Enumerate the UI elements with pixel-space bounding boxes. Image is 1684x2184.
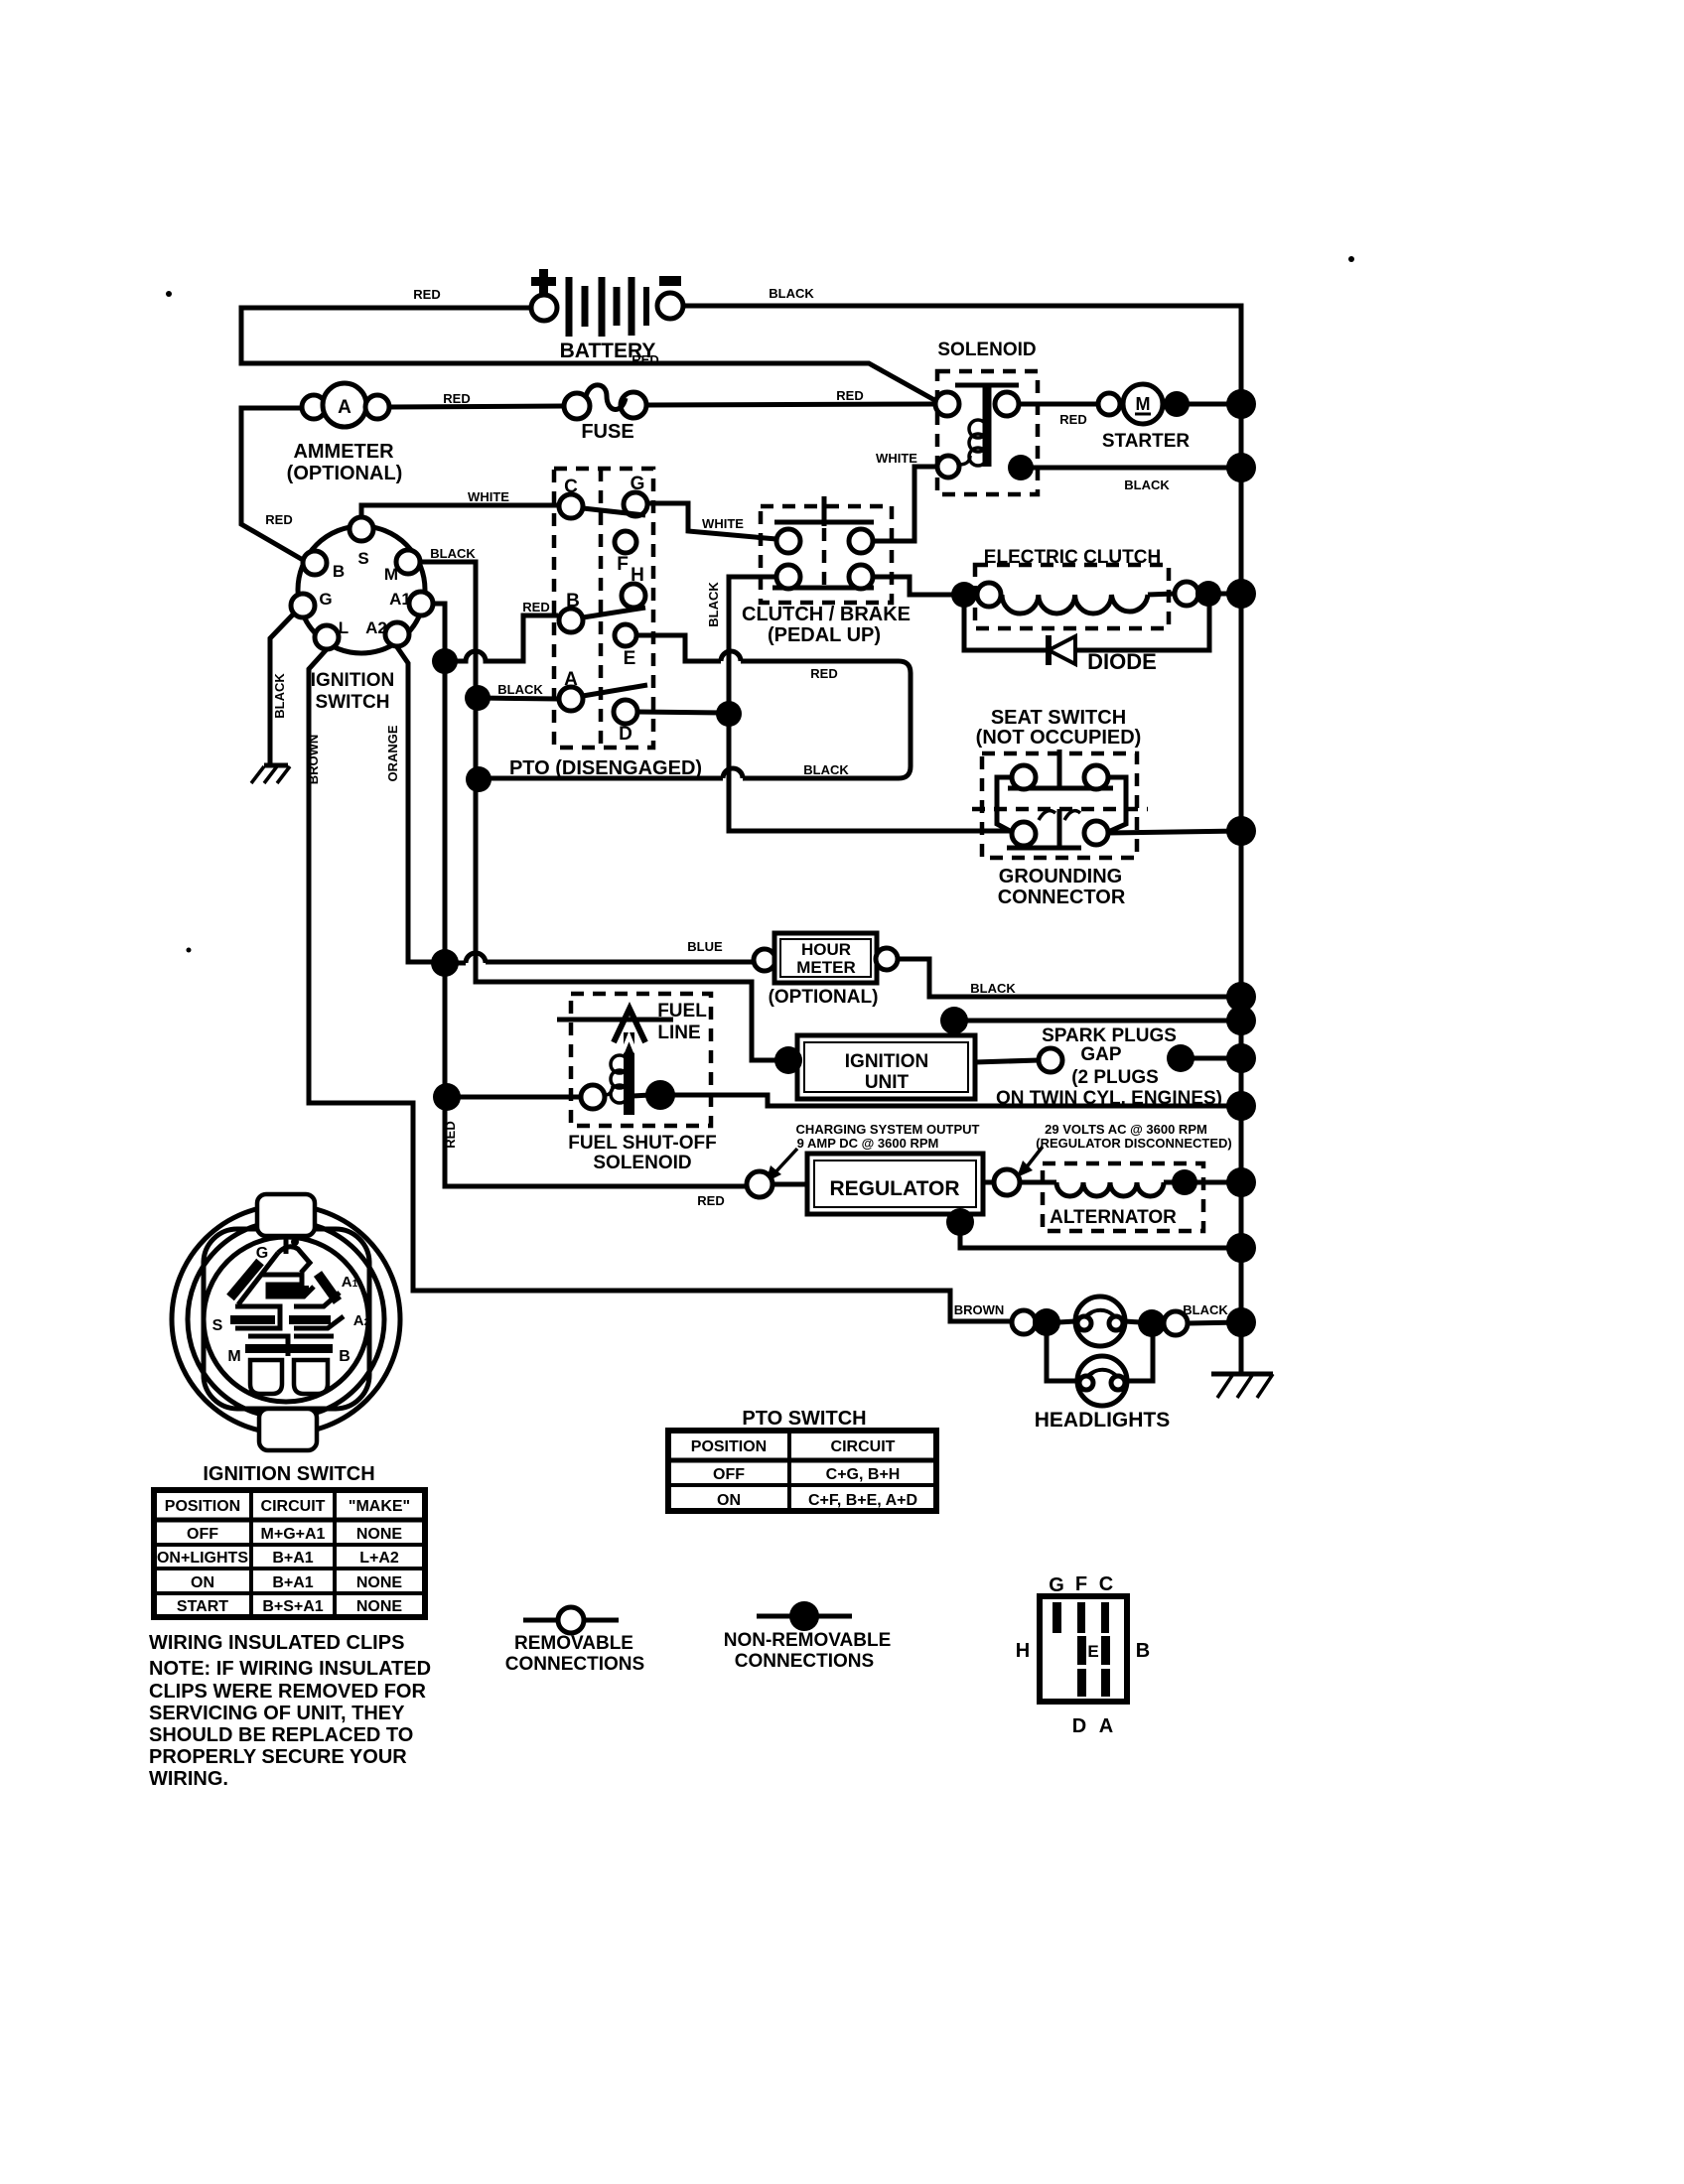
ground at ignition switch — [251, 765, 290, 783]
junction dot bus regulator return — [1226, 1233, 1256, 1263]
svg-text:ON+LIGHTS: ON+LIGHTS — [157, 1550, 248, 1567]
ignition switch pin S — [350, 517, 373, 568]
svg-text:D: D — [619, 724, 632, 745]
removable connections legend — [505, 1607, 644, 1675]
wire seat switch to bus — [1108, 831, 1241, 833]
PTO pin F — [615, 531, 636, 575]
svg-text:B+A1: B+A1 — [272, 1550, 313, 1567]
junction dot fuel solenoid right — [645, 1080, 675, 1110]
spark plug gap electrode (dot) and wire to bus — [1192, 1056, 1241, 1061]
clutch/brake pin top-right — [849, 529, 873, 553]
PTO pin G — [624, 474, 647, 516]
svg-text:RED: RED — [443, 1121, 458, 1148]
svg-text:BLUE: BLUE — [687, 939, 723, 954]
svg-text:LINE: LINE — [657, 1023, 700, 1043]
svg-text:NON-REMOVABLE: NON-REMOVABLE — [724, 1630, 892, 1651]
svg-text:L: L — [339, 618, 349, 637]
svg-text:AMMETER: AMMETER — [293, 441, 394, 463]
junction dot orange/A1/blue — [431, 949, 459, 977]
svg-text:BLACK: BLACK — [272, 673, 287, 719]
wire headlights to bus (BLACK) — [1188, 1322, 1241, 1323]
PTO pin B — [559, 591, 583, 632]
ground at bus bottom — [1211, 1374, 1273, 1398]
svg-text:B: B — [566, 591, 580, 612]
svg-text:STARTER: STARTER — [1102, 431, 1191, 452]
junction dot bus spark gap — [1226, 1043, 1256, 1073]
wire solenoid to starter (RED) — [1019, 402, 1098, 407]
svg-text:METER: METER — [796, 958, 856, 977]
wire diode branch — [964, 594, 1209, 650]
non-removable connections legend — [724, 1601, 892, 1672]
svg-text:SOLENOID: SOLENOID — [593, 1153, 691, 1173]
svg-text:(OPTIONAL): (OPTIONAL) — [287, 463, 403, 484]
svg-text:FUSE: FUSE — [581, 421, 633, 443]
diode D1 — [1049, 635, 1157, 674]
spark plugs label — [996, 1025, 1222, 1109]
headlight feed open circle — [1012, 1310, 1036, 1334]
svg-text:RED: RED — [810, 666, 837, 681]
svg-text:BLACK: BLACK — [497, 682, 543, 697]
wire pin S up and right to PTO C (WHITE) — [361, 505, 559, 520]
svg-text:FUEL SHUT-OFF: FUEL SHUT-OFF — [568, 1133, 717, 1154]
svg-text:NOTE: IF WIRING INSULATED: NOTE: IF WIRING INSULATED — [149, 1658, 431, 1680]
alternator — [1043, 1163, 1203, 1231]
print artifact dots — [166, 291, 172, 297]
svg-text:G: G — [256, 1245, 268, 1262]
wire blue to hour meter with hop — [445, 953, 754, 963]
wire fuse to solenoid (RED) — [646, 404, 935, 405]
headlight right open circle — [1164, 1311, 1188, 1335]
svg-text:REMOVABLE: REMOVABLE — [514, 1633, 633, 1654]
wire PTO D to junction — [637, 712, 723, 713]
clutch/brake switch dashed box — [742, 496, 911, 646]
svg-text:A1: A1 — [389, 590, 411, 609]
svg-text:B: B — [339, 1348, 351, 1365]
seat switch title — [976, 707, 1142, 749]
junction dot fuel feed — [433, 1083, 461, 1111]
svg-text:M: M — [384, 565, 398, 584]
parallel branch to headlight 2 — [1047, 1322, 1153, 1381]
connector keyway maze — [212, 1238, 370, 1394]
electric clutch — [975, 547, 1198, 628]
seat switch / grounding connector dashed box — [972, 753, 1148, 858]
wire PTO E loop to black vertical (RED/BLACK return) — [483, 635, 911, 778]
svg-text:M: M — [1136, 394, 1151, 414]
junction dot regulator bottom — [946, 1208, 974, 1236]
junction dot A1/red-B — [432, 648, 458, 674]
fuel shut-off solenoid — [557, 994, 717, 1173]
svg-text:NONE: NONE — [356, 1526, 403, 1543]
wire ammeter left down to ignition switch B (RED) — [241, 408, 303, 560]
clutch/brake pin bottom-right — [849, 565, 873, 589]
svg-text:OFF: OFF — [187, 1526, 218, 1543]
wire headlight 1 right — [1125, 1321, 1140, 1322]
ignition switch table — [154, 1490, 425, 1617]
svg-text:HOUR: HOUR — [801, 940, 851, 959]
svg-text:NONE: NONE — [356, 1574, 403, 1591]
svg-text:GAP: GAP — [1080, 1044, 1122, 1065]
seat switch pin bottom-left — [1012, 822, 1036, 846]
svg-text:CONNECTIONS: CONNECTIONS — [735, 1651, 874, 1672]
svg-text:OFF: OFF — [713, 1466, 745, 1483]
wire pin A2 down (ORANGE) — [397, 647, 434, 962]
ignition switch pin A1 — [389, 590, 433, 615]
wire battery positive to left loop down to solenoid (RED) — [241, 308, 936, 401]
svg-text:HEADLIGHTS: HEADLIGHTS — [1035, 1409, 1171, 1432]
right bus vertical wire — [1239, 304, 1244, 1374]
svg-text:RED: RED — [836, 388, 863, 403]
svg-text:(OPTIONAL): (OPTIONAL) — [769, 987, 879, 1008]
svg-text:E: E — [1087, 1642, 1098, 1661]
svg-text:A2: A2 — [365, 618, 387, 637]
wire pin A1 right and down (RED feed) — [433, 604, 748, 1186]
headlight lamp 1 — [1075, 1297, 1125, 1346]
junction dot bus electric clutch — [1226, 579, 1256, 609]
svg-text:B: B — [333, 562, 345, 581]
wire PTO G to clutch-brake top-left (WHITE) — [647, 503, 776, 539]
svg-text:WIRING.: WIRING. — [149, 1768, 228, 1790]
PTO contact blade C-G — [583, 508, 645, 515]
svg-text:PTO SWITCH: PTO SWITCH — [742, 1408, 866, 1430]
junction dot bus solenoid black — [1226, 453, 1256, 482]
junction dot bus spark top — [1226, 1006, 1256, 1035]
seat switch pin top-right — [1084, 765, 1108, 789]
PTO pin E — [615, 624, 636, 669]
svg-text:SPARK PLUGS: SPARK PLUGS — [1042, 1025, 1177, 1046]
svg-text:ALTERNATOR: ALTERNATOR — [1050, 1207, 1177, 1228]
clutch/brake pin top-left — [776, 529, 800, 553]
wire pin L down (BROWN headlight feed) — [309, 649, 1011, 1321]
wire fuel solenoid return to bus — [673, 1095, 1241, 1106]
charging system output note with arrow — [766, 1122, 980, 1182]
starter motor M — [1098, 384, 1190, 452]
headlight lamp 2 — [1077, 1356, 1127, 1406]
svg-text:BROWN: BROWN — [954, 1302, 1005, 1317]
svg-text:ON TWIN CYL. ENGINES): ON TWIN CYL. ENGINES) — [996, 1088, 1222, 1109]
junction dot on black vertical at A — [465, 685, 491, 711]
svg-text:CHARGING SYSTEM OUTPUT: CHARGING SYSTEM OUTPUT — [796, 1122, 980, 1137]
svg-text:C+F, B+E, A+D: C+F, B+E, A+D — [808, 1492, 917, 1509]
svg-text:C: C — [1099, 1573, 1113, 1595]
junction dot bus alternator — [1226, 1167, 1256, 1197]
svg-text:RED: RED — [413, 287, 440, 302]
wire ammeter to fuse (RED) — [389, 406, 564, 407]
junction dot D/clutch/seat — [716, 701, 742, 727]
svg-text:SERVICING OF UNIT, THEY: SERVICING OF UNIT, THEY — [149, 1703, 405, 1724]
PTO pin H — [622, 565, 645, 608]
PTO pin D — [614, 700, 637, 745]
svg-text:H: H — [631, 565, 644, 586]
svg-text:CIRCUIT: CIRCUIT — [831, 1438, 896, 1455]
svg-text:9 AMP DC @ 3600 RPM: 9 AMP DC @ 3600 RPM — [797, 1136, 939, 1151]
svg-text:RED: RED — [522, 600, 549, 614]
wire electric clutch to bus — [1148, 594, 1241, 595]
junction dot starter — [1164, 391, 1190, 417]
seat switch pin bottom-right — [1084, 821, 1108, 845]
svg-text:B+S+A1: B+S+A1 — [262, 1598, 323, 1615]
ignition switch pin G — [291, 590, 333, 617]
wire ignition unit output to spark gap — [975, 1060, 1039, 1062]
junction dot bus fuel return — [1226, 1091, 1256, 1121]
regulator input circle — [747, 1171, 772, 1197]
svg-text:NONE: NONE — [356, 1598, 403, 1615]
svg-text:POSITION: POSITION — [165, 1498, 240, 1515]
ignition switch pin M — [384, 550, 420, 584]
svg-text:BATTERY: BATTERY — [560, 340, 656, 362]
svg-text:RED: RED — [443, 391, 470, 406]
svg-text:SOLENOID: SOLENOID — [937, 340, 1036, 360]
junction dot headlight right — [1138, 1309, 1166, 1337]
wire regulator input — [772, 1182, 807, 1187]
PTO contact blade B-H — [583, 608, 645, 617]
wire battery negative to right bus (BLACK) — [683, 306, 1241, 404]
svg-text:ON: ON — [191, 1574, 214, 1591]
svg-text:WHITE: WHITE — [876, 451, 917, 466]
solenoid — [935, 340, 1038, 494]
PTO connector pin layout — [1016, 1573, 1150, 1737]
clutch/brake pin bottom-left — [776, 565, 800, 589]
PTO switch table — [668, 1431, 936, 1511]
wiring insulated clips note — [149, 1632, 431, 1790]
wire clutch-brake bottom-right to electric clutch (RED) — [873, 577, 977, 595]
junction dot headlight left — [1033, 1308, 1060, 1336]
ignition switch pin A2 — [365, 618, 409, 646]
svg-text:G: G — [319, 590, 332, 609]
svg-text:START: START — [177, 1598, 228, 1615]
junction dot ignition unit input — [774, 1046, 802, 1074]
wire regulator bottom to bus — [960, 1228, 1241, 1248]
svg-text:B: B — [1136, 1640, 1150, 1662]
wire pin M right and down (BLACK) — [420, 562, 780, 1060]
svg-text:(PEDAL UP): (PEDAL UP) — [768, 624, 881, 646]
svg-text:IGNITION: IGNITION — [845, 1051, 928, 1072]
svg-text:WHITE: WHITE — [468, 489, 509, 504]
svg-text:S: S — [357, 549, 368, 568]
svg-text:D: D — [1072, 1715, 1086, 1737]
svg-text:BROWN: BROWN — [306, 735, 321, 785]
svg-text:(2 PLUGS: (2 PLUGS — [1071, 1067, 1159, 1088]
svg-text:CLIPS WERE REMOVED FOR: CLIPS WERE REMOVED FOR — [149, 1681, 426, 1703]
regulator output circle — [994, 1169, 1020, 1195]
grounding connector label — [998, 866, 1126, 908]
svg-text:G: G — [1049, 1574, 1064, 1596]
svg-text:H: H — [1016, 1640, 1030, 1662]
svg-text:(NOT OCCUPIED): (NOT OCCUPIED) — [976, 727, 1142, 749]
svg-text:DIODE: DIODE — [1087, 649, 1157, 674]
svg-text:"MAKE": "MAKE" — [349, 1498, 410, 1515]
fuse F1 — [564, 385, 646, 443]
wire solenoid white down to clutch-brake (WHITE) — [873, 467, 937, 541]
svg-text:POSITION: POSITION — [691, 1438, 767, 1455]
svg-text:ORANGE: ORANGE — [385, 725, 400, 781]
svg-text:GROUNDING: GROUNDING — [999, 866, 1122, 887]
svg-text:PROPERLY SECURE YOUR: PROPERLY SECURE YOUR — [149, 1746, 407, 1768]
ignition unit — [797, 1035, 975, 1099]
PTO pin C — [559, 477, 583, 518]
ignition switch body — [298, 526, 425, 713]
hour meter — [754, 933, 898, 1008]
wire pin G to ground (BLACK) — [270, 613, 295, 765]
ignition switch connector drawing — [172, 1194, 400, 1450]
wire red to PTO B with hop over black vertical — [445, 615, 558, 661]
wire fuel solenoid feed — [447, 1095, 581, 1100]
junction dot electric clutch left — [951, 582, 977, 608]
svg-text:C: C — [564, 477, 578, 497]
svg-text:ELECTRIC CLUTCH: ELECTRIC CLUTCH — [984, 547, 1161, 568]
svg-text:F: F — [1075, 1573, 1087, 1595]
regulator — [807, 1154, 983, 1214]
svg-text:BLACK: BLACK — [430, 546, 476, 561]
svg-text:SWITCH: SWITCH — [316, 692, 390, 713]
wire ignition unit top to bus — [954, 1021, 1241, 1027]
svg-text:BLACK: BLACK — [803, 762, 849, 777]
seat switch pin top-left — [1012, 765, 1036, 789]
svg-text:CONNECTOR: CONNECTOR — [998, 887, 1126, 908]
spark plug gap electrode (open) — [1039, 1048, 1062, 1072]
wire hour meter to bus (BLACK) — [898, 959, 1241, 997]
junction dot bus headlights — [1226, 1307, 1256, 1337]
battery BT1 — [531, 269, 683, 362]
svg-text:BLACK: BLACK — [1124, 478, 1170, 492]
svg-text:A: A — [564, 669, 578, 690]
seat switch internals — [997, 750, 1126, 848]
29 volts note with arrow — [1017, 1122, 1232, 1177]
svg-text:A: A — [338, 397, 351, 418]
svg-text:G: G — [631, 474, 645, 494]
svg-text:A: A — [1099, 1715, 1113, 1737]
svg-text:CONNECTIONS: CONNECTIONS — [505, 1654, 644, 1675]
junction dot bus at starter — [1226, 389, 1256, 419]
svg-text:IGNITION SWITCH: IGNITION SWITCH — [203, 1463, 374, 1485]
svg-text:WHITE: WHITE — [702, 516, 744, 531]
svg-text:29 VOLTS AC @ 3600 RPM: 29 VOLTS AC @ 3600 RPM — [1045, 1122, 1207, 1137]
svg-text:E: E — [624, 648, 636, 669]
wire black to PTO A — [478, 698, 559, 699]
svg-text:C+G, B+H: C+G, B+H — [826, 1466, 901, 1483]
svg-text:RED: RED — [1059, 412, 1086, 427]
svg-text:RED: RED — [697, 1193, 724, 1208]
svg-text:ON: ON — [717, 1492, 741, 1509]
svg-text:UNIT: UNIT — [865, 1072, 910, 1093]
wire headlight 1 — [1058, 1321, 1075, 1322]
svg-text:L+A2: L+A2 — [359, 1550, 399, 1567]
ignition switch pin B — [303, 551, 345, 581]
junction dot bus hour meter — [1226, 982, 1256, 1012]
svg-text:BLACK: BLACK — [769, 286, 814, 301]
svg-text:BLACK: BLACK — [970, 981, 1016, 996]
svg-text:RED: RED — [265, 512, 292, 527]
svg-text:B+A1: B+A1 — [272, 1574, 313, 1591]
PTO switch dashed box — [509, 469, 702, 779]
wire starter to bus — [1161, 402, 1241, 407]
svg-text:F: F — [617, 554, 629, 575]
svg-text:WIRING INSULATED CLIPS: WIRING INSULATED CLIPS — [149, 1632, 404, 1654]
svg-text:CIRCUIT: CIRCUIT — [261, 1498, 326, 1515]
wire regulator output — [983, 1180, 1056, 1185]
junction dot electric clutch right — [1195, 581, 1221, 607]
svg-text:S: S — [212, 1317, 223, 1334]
junction dot alternator — [1172, 1169, 1197, 1195]
wire solenoid black to bus (BLACK) — [1033, 466, 1241, 471]
svg-text:(REGULATOR DISCONNECTED): (REGULATOR DISCONNECTED) — [1036, 1136, 1231, 1151]
junction dot ignition unit top — [940, 1007, 968, 1034]
svg-text:CLUTCH / BRAKE: CLUTCH / BRAKE — [742, 604, 911, 625]
wire alternator to bus — [1164, 1180, 1241, 1185]
svg-text:SHOULD BE REPLACED TO: SHOULD BE REPLACED TO — [149, 1724, 413, 1746]
svg-text:BLACK: BLACK — [706, 582, 721, 627]
svg-text:M+G+A1: M+G+A1 — [261, 1526, 326, 1543]
ignition switch pin L — [315, 618, 349, 649]
svg-text:REGULATOR: REGULATOR — [829, 1177, 959, 1200]
svg-text:IGNITION: IGNITION — [311, 670, 394, 691]
svg-text:SEAT SWITCH: SEAT SWITCH — [991, 707, 1126, 729]
PTO pin A — [559, 669, 583, 711]
svg-text:BLACK: BLACK — [1183, 1302, 1228, 1317]
PTO contact blade A — [583, 685, 647, 696]
svg-text:M: M — [227, 1348, 240, 1365]
junction dot bus seat switch — [1226, 816, 1256, 846]
ammeter A (optional) — [287, 383, 403, 484]
wire clutch-brake bottom-left down to seat switch — [729, 577, 1012, 831]
junction dot on black vertical at E return — [466, 766, 491, 792]
